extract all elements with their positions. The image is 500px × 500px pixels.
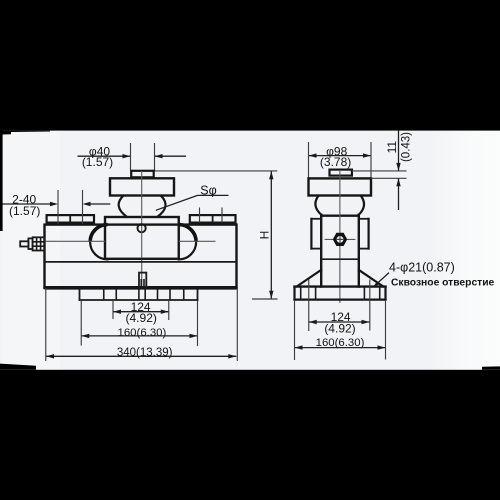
dimension 340(13.39) left view (46, 288, 238, 361)
dimension 2-40 lines and arrows (3, 190, 111, 224)
black scan border band bottom (0, 370, 500, 500)
dimension 11(0.43) rotated texts (385, 132, 412, 162)
nut horizontal centreline (325, 238, 356, 240)
body step line (45, 261, 237, 263)
svg-text:(1.57): (1.57) (82, 155, 113, 169)
svg-text:160(6.30): 160(6.30) (118, 327, 167, 339)
horizontal reference line from stub top to H dimension (154, 170, 277, 172)
svg-text:(4.92): (4.92) (324, 321, 355, 335)
paper background of scanned drawing strip (0, 129, 500, 371)
svg-text:4-φ21(0.87): 4-φ21(0.87) (389, 260, 455, 274)
bottom mounting plate left view (80, 290, 198, 301)
svg-text:(1.57): (1.57) (9, 204, 40, 218)
scan border ragged corner top-left (0, 131, 50, 135)
dimension 2-40 texts (9, 192, 40, 218)
dimension phi40 texts (82, 145, 113, 169)
dimension phi98 texts (320, 144, 351, 169)
screw hole circle on middle block (138, 224, 146, 232)
loading stub top right view (330, 170, 352, 176)
side tab right (359, 219, 369, 249)
cable connector left view (20, 237, 44, 250)
dimension 124 left view (113, 300, 169, 325)
middle block left view (105, 217, 179, 259)
left mounting pad (47, 215, 94, 223)
stub top extension line (352, 170, 407, 172)
dimension 160(6.30) left view (81, 301, 197, 346)
column top line right view (321, 214, 359, 216)
column step line right view (321, 258, 359, 260)
svg-text:(4.92): (4.92) (126, 311, 157, 325)
spring element stadium left arc (90, 225, 107, 260)
dimension phi40 lines and arrows (78, 143, 187, 171)
main body block left view (45, 225, 237, 288)
top cap plate right view (309, 178, 372, 195)
svg-text:(3.78): (3.78) (320, 155, 351, 169)
spring element stadium right arc (179, 225, 196, 260)
horizontal centreline left view (45, 240, 216, 242)
label through hole (Russian) (391, 277, 495, 288)
stadium bottom line (108, 258, 179, 260)
svg-text:11: 11 (385, 141, 399, 154)
leader 4-phi21 with arrow (373, 260, 455, 288)
black scan border left edge strip (0, 130, 3, 231)
black scan border band top (0, 0, 500, 131)
scan border ragged corner bottom-left (0, 364, 36, 370)
hex nut right view (333, 233, 347, 246)
svg-text:Сквозное отверстие: Сквозное отверстие (391, 277, 495, 288)
column sides right view (321, 215, 359, 287)
vertical centre axis left view (141, 171, 143, 288)
flange skirt diagonals (297, 270, 383, 287)
top cap plate left view (110, 178, 174, 195)
side tab left (311, 219, 321, 249)
S-phi label and leader (156, 183, 229, 210)
rocker ball left view (119, 196, 166, 217)
loading stub top (phi40) left view (131, 171, 154, 178)
dimension phi98 lines and arrows (309, 142, 372, 178)
right mounting pad (190, 215, 236, 223)
cap top extension line (371, 177, 407, 179)
bottom centre slot left view (139, 273, 146, 287)
bolt hole centrelines through flange (309, 280, 370, 332)
dimension 160(6.30) right view (295, 300, 386, 360)
svg-text:(0.43): (0.43) (400, 132, 412, 162)
dimension H (252, 171, 278, 299)
vertical centre axis right view (339, 170, 341, 303)
dimension 11 line and arrows (396, 131, 400, 211)
svg-text:H: H (258, 231, 272, 240)
svg-text:340(13.39): 340(13.39) (117, 347, 173, 359)
rocker ball right view (315, 196, 364, 215)
right pad hole centrelines (200, 208, 223, 223)
dimension 124 right view (309, 310, 370, 335)
flange base band right view (295, 287, 386, 300)
scan border ragged corner bottom-right (482, 366, 500, 369)
